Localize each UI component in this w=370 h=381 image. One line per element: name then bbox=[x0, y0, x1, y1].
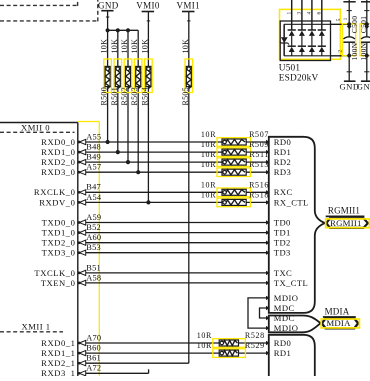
svg-text:5: 5 bbox=[336, 18, 342, 21]
svg-text:RGMII1: RGMII1 bbox=[328, 206, 360, 216]
svg-text:RXD1_0: RXD1_0 bbox=[41, 147, 75, 157]
svg-text:TD1: TD1 bbox=[274, 228, 291, 238]
svg-text:100N: 100N bbox=[359, 42, 368, 60]
svg-text:10K: 10K bbox=[120, 39, 129, 54]
svg-text:A54: A54 bbox=[86, 193, 102, 202]
svg-text:10R: 10R bbox=[201, 180, 216, 189]
pin 6 U501 bbox=[321, 0, 323, 30]
wire TXD3_0 bbox=[86, 252, 267, 254]
svg-text:TXD2_0: TXD2_0 bbox=[42, 238, 76, 248]
svg-text:VMI0: VMI0 bbox=[136, 1, 160, 11]
harness connector RGMII2 (cropped) bbox=[269, 335, 315, 376]
svg-text:RXD2_1: RXD2_1 bbox=[41, 358, 75, 368]
harness entry MDIO bbox=[266, 296, 270, 300]
svg-text:VMI1: VMI1 bbox=[176, 1, 200, 11]
resistor R504 10K bbox=[145, 59, 153, 93]
wire RXD2_0 bbox=[86, 161, 222, 163]
svg-text:R516: R516 bbox=[249, 180, 269, 189]
svg-text:TXCLK_0: TXCLK_0 bbox=[34, 268, 75, 278]
svg-text:1: 1 bbox=[343, 17, 349, 20]
svg-text:XMII 1: XMII 1 bbox=[21, 322, 50, 332]
highlight line vertical bbox=[98, 122, 100, 377]
svg-text:U501: U501 bbox=[279, 63, 301, 73]
pin 3 U501 bbox=[301, 0, 303, 30]
resistor R516 10R bbox=[217, 188, 251, 197]
diode pair ch1 bbox=[288, 29, 296, 31]
svg-text:RD0: RD0 bbox=[274, 338, 291, 348]
wire RXD0_0 bbox=[86, 141, 222, 143]
IC U501 ESD20kV bbox=[280, 9, 341, 59]
node R503/RXD3_0 bbox=[136, 170, 140, 174]
wire MDC loop bbox=[260, 308, 267, 318]
svg-text:R528: R528 bbox=[245, 331, 265, 340]
wire MDIO loop bbox=[248, 298, 267, 328]
node C501 top bbox=[365, 22, 369, 26]
capacitor C501 100N bbox=[360, 24, 370, 56]
highlight line horizontal bbox=[78, 121, 100, 123]
svg-text:100N: 100N bbox=[350, 42, 359, 60]
svg-text:R529: R529 bbox=[245, 341, 265, 350]
wire RXD1_0 bbox=[86, 151, 222, 153]
wire RXD0_1 bbox=[86, 342, 219, 344]
node junction R501 bbox=[116, 28, 120, 32]
harness entry RD3 bbox=[266, 170, 270, 174]
resistor R500 10K bbox=[104, 59, 112, 93]
harness entry TD0 bbox=[266, 220, 270, 224]
svg-text:RXD3_1: RXD3_1 bbox=[41, 368, 75, 376]
svg-text:C500: C500 bbox=[350, 16, 359, 33]
svg-text:TXC: TXC bbox=[274, 268, 292, 278]
svg-text:A60: A60 bbox=[86, 233, 101, 242]
svg-text:TX_CTL: TX_CTL bbox=[274, 278, 308, 288]
wire RXD1_1 bbox=[86, 352, 219, 354]
harness entry RD0 bbox=[266, 140, 270, 144]
svg-text:RX_CTL: RX_CTL bbox=[274, 197, 309, 207]
wire RXD3_1 stub bbox=[148, 369, 150, 373]
wire TXEN_0 bbox=[86, 282, 267, 284]
svg-text:R504: R504 bbox=[140, 87, 149, 106]
svg-text:RXD2_0: RXD2_0 bbox=[41, 157, 75, 167]
svg-text:6: 6 bbox=[316, 11, 322, 14]
resistor R513 10R bbox=[217, 168, 251, 177]
svg-text:MDC: MDC bbox=[274, 303, 295, 313]
wire R502 column bbox=[127, 30, 129, 162]
wire R503 column bbox=[137, 30, 139, 172]
svg-text:10K: 10K bbox=[181, 39, 190, 54]
svg-text:RD3: RD3 bbox=[274, 167, 291, 177]
wire RXD3_1 bbox=[86, 372, 149, 374]
pin 2 U501 wire (GND rail ext) bbox=[331, 55, 350, 57]
svg-text:R501: R501 bbox=[110, 87, 119, 106]
wire TXCLK_0 bbox=[86, 272, 267, 274]
harness entry TX_CTL bbox=[266, 281, 270, 285]
harness entry TD3 bbox=[266, 251, 270, 255]
svg-text:B51: B51 bbox=[86, 263, 101, 272]
resistor R511 10R bbox=[217, 158, 251, 167]
svg-text:RD2: RD2 bbox=[274, 157, 291, 167]
wire VMI0/R504 column bbox=[147, 12, 149, 203]
svg-text:A58: A58 bbox=[86, 273, 101, 282]
svg-text:ESD20kV: ESD20kV bbox=[279, 74, 319, 84]
resistor R502 10K bbox=[124, 59, 132, 93]
svg-text:10R: 10R bbox=[197, 331, 212, 340]
svg-text:TXD0_0: TXD0_0 bbox=[42, 217, 76, 227]
svg-text:4: 4 bbox=[307, 11, 313, 14]
svg-text:RGMII1: RGMII1 bbox=[330, 218, 362, 228]
svg-text:TXD3_0: TXD3_0 bbox=[42, 248, 76, 258]
svg-text:B47: B47 bbox=[86, 183, 101, 192]
svg-text:10R: 10R bbox=[197, 341, 212, 350]
svg-text:10K: 10K bbox=[110, 39, 119, 54]
wire R500 column bbox=[107, 30, 109, 142]
harness entry RXC bbox=[266, 190, 270, 194]
svg-text:10R: 10R bbox=[201, 190, 216, 199]
wire R501 column bbox=[117, 30, 119, 152]
svg-text:TXD1_0: TXD1_0 bbox=[42, 228, 76, 238]
svg-text:RXD3_0: RXD3_0 bbox=[41, 167, 75, 177]
node pin2/C500 bbox=[347, 53, 352, 56]
wire RXDV_0 bbox=[86, 201, 222, 203]
node pin5/C500 bbox=[347, 22, 351, 26]
svg-text:MDIA: MDIA bbox=[326, 318, 351, 328]
wire TXD2_0 bbox=[86, 242, 267, 244]
svg-text:R500: R500 bbox=[100, 87, 109, 106]
svg-text:RD1: RD1 bbox=[274, 147, 291, 157]
svg-text:A70: A70 bbox=[86, 333, 101, 342]
svg-text:10R: 10R bbox=[201, 160, 216, 169]
resistor R505 10K bbox=[185, 59, 193, 93]
harness connector RGMII1 bbox=[269, 137, 325, 313]
svg-text:RXDV_0: RXDV_0 bbox=[39, 197, 75, 207]
svg-text:10K: 10K bbox=[140, 39, 149, 54]
harness entry MDC bbox=[266, 306, 270, 310]
svg-text:B48: B48 bbox=[86, 143, 101, 152]
svg-text:A55: A55 bbox=[86, 132, 101, 141]
wire VMI1/R505 column bbox=[188, 12, 190, 364]
resistor R528 10R bbox=[213, 339, 246, 348]
diode pair ch3 bbox=[298, 29, 306, 31]
svg-text:B52: B52 bbox=[86, 223, 101, 232]
svg-text:10R: 10R bbox=[201, 140, 216, 149]
svg-text:RXCLK_0: RXCLK_0 bbox=[34, 187, 76, 197]
dashed region outline A bbox=[0, 4, 78, 6]
svg-text:C501: C501 bbox=[359, 16, 368, 33]
harness entry RX_CTL bbox=[266, 200, 270, 204]
pin 5 U501 wire (VCC rail ext) bbox=[331, 23, 350, 25]
power symbol GND (C501) bbox=[364, 71, 369, 73]
harness entry RD1 bbox=[266, 150, 270, 154]
svg-text:RD1: RD1 bbox=[274, 348, 291, 358]
node junction GND/R500 bbox=[106, 28, 110, 32]
wire RXD3_0 bbox=[86, 171, 222, 173]
wire TXD0_0 bbox=[86, 222, 267, 224]
resistor R529 10R bbox=[213, 349, 246, 358]
svg-text:RXD0_0: RXD0_0 bbox=[41, 137, 75, 147]
harness entry TD2 bbox=[266, 241, 270, 245]
svg-text:MDIO: MDIO bbox=[274, 323, 299, 333]
svg-text:R507: R507 bbox=[249, 130, 269, 139]
resistor R509 10R bbox=[217, 148, 251, 157]
wire RXCLK_0 bbox=[86, 191, 222, 193]
svg-text:XMII 0: XMII 0 bbox=[21, 122, 50, 132]
connector block XMII 0 bbox=[0, 122, 78, 124]
svg-text:A59: A59 bbox=[86, 213, 101, 222]
harness entry MDIO (2) bbox=[266, 326, 270, 330]
diode pair ch4 bbox=[308, 29, 316, 31]
svg-text:B49: B49 bbox=[86, 153, 101, 162]
svg-text:MDIO: MDIO bbox=[274, 293, 299, 303]
svg-text:R505: R505 bbox=[181, 87, 190, 106]
dashed region outline B bbox=[0, 20, 98, 22]
node junction R502 bbox=[126, 28, 130, 32]
node R504/RXDV_0 bbox=[146, 200, 150, 204]
node R500/RXD0_0 bbox=[106, 140, 110, 144]
diode pair ch6 bbox=[318, 29, 326, 31]
svg-text:R503: R503 bbox=[130, 87, 139, 106]
svg-text:TD0: TD0 bbox=[274, 217, 291, 227]
svg-text:10K: 10K bbox=[130, 39, 139, 54]
svg-text:TXEN_0: TXEN_0 bbox=[41, 278, 76, 288]
harness connector MDIA bbox=[269, 316, 321, 333]
svg-text:10R: 10R bbox=[201, 130, 216, 139]
resistor R507 10R bbox=[217, 138, 251, 147]
svg-text:B61: B61 bbox=[86, 354, 101, 363]
svg-text:TD3: TD3 bbox=[274, 248, 291, 258]
svg-text:A72: A72 bbox=[86, 364, 101, 373]
node R502/RXD2_0 bbox=[126, 160, 130, 164]
node C501 bottom bbox=[364, 53, 369, 56]
svg-text:RXD1_1: RXD1_1 bbox=[41, 348, 75, 358]
svg-text:RD0: RD0 bbox=[274, 137, 291, 147]
svg-text:10R: 10R bbox=[201, 150, 216, 159]
resistor R518 10R bbox=[217, 198, 251, 207]
harness entry TXC bbox=[266, 271, 270, 275]
svg-text:3: 3 bbox=[297, 11, 303, 14]
pin 4 U501 bbox=[311, 0, 313, 30]
svg-text:RXC: RXC bbox=[274, 187, 293, 197]
resistor R501 10K bbox=[114, 59, 122, 93]
wire TXD1_0 bbox=[86, 232, 267, 234]
svg-text:B53: B53 bbox=[86, 243, 101, 252]
svg-text:10K: 10K bbox=[100, 39, 109, 54]
harness entry RD1 (2) bbox=[266, 351, 270, 355]
svg-text:TD2: TD2 bbox=[274, 238, 291, 248]
svg-text:GND: GND bbox=[357, 82, 370, 92]
zener diode U501 bbox=[283, 24, 285, 37]
svg-text:1: 1 bbox=[286, 11, 292, 14]
svg-text:MDC: MDC bbox=[274, 313, 295, 323]
wire RXD2_1 bbox=[86, 362, 189, 364]
harness entry MDC (2) bbox=[266, 316, 270, 320]
node R501/RXD1_0 bbox=[116, 150, 120, 154]
svg-text:MDIA: MDIA bbox=[325, 307, 350, 317]
pin 1 U501 bbox=[291, 0, 293, 30]
svg-text:RXD0_1: RXD0_1 bbox=[41, 338, 75, 348]
power symbol GND (C500) bbox=[347, 71, 352, 73]
harness entry TD1 bbox=[266, 230, 270, 234]
capacitor C500 100N bbox=[342, 24, 355, 56]
svg-text:B60: B60 bbox=[86, 344, 101, 353]
svg-text:A57: A57 bbox=[86, 163, 101, 172]
harness entry RD2 bbox=[266, 160, 270, 164]
harness entry RD0 (2) bbox=[266, 341, 270, 345]
svg-text:GND: GND bbox=[98, 1, 119, 11]
wire GND strap bbox=[108, 29, 139, 31]
svg-text:R502: R502 bbox=[120, 87, 129, 106]
resistor R503 10K bbox=[134, 59, 142, 93]
